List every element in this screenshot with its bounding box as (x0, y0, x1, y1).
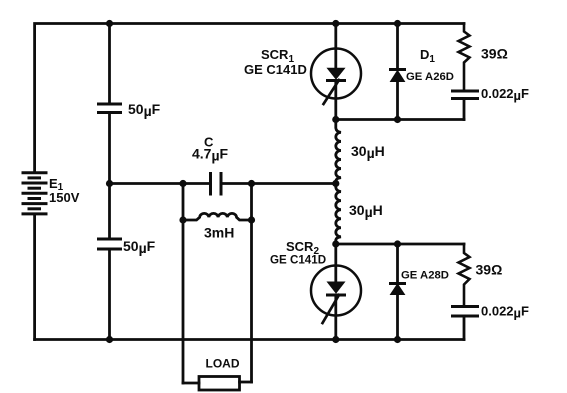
node top D1 (394, 20, 401, 27)
inductor 30uH lower (336, 184, 341, 245)
battery E1 (23, 173, 46, 214)
SCR2 circle (311, 266, 361, 316)
node top filter (106, 20, 113, 27)
node 3mH left (179, 216, 186, 223)
SCR1 circle (311, 49, 361, 99)
svg-text:3mH: 3mH (204, 225, 234, 241)
svg-text:50µF: 50µF (128, 101, 161, 119)
capacitor C 4.7uF (211, 174, 222, 195)
wire left lower (battery to bottom bus) (33, 214, 36, 340)
wire filter branch upper (108, 24, 111, 105)
SCR1 gate lead (324, 80, 340, 104)
diode D2 branch wire upper (396, 244, 399, 284)
node bottom SCR2 (332, 336, 339, 343)
SCR1 cathode bar (328, 79, 345, 82)
wire mid bus left of C (110, 182, 211, 185)
wire cell1 bottom (336, 118, 464, 121)
wire SCR1 cathode (334, 81, 337, 120)
node bottom filter (106, 336, 113, 343)
diode D1 branch wire lower (396, 82, 399, 120)
node tank left top (179, 180, 186, 187)
wire snubber1 lower (463, 99, 466, 120)
svg-text:GE C141D: GE C141D (270, 254, 326, 267)
node cell1 D1 (394, 116, 401, 123)
svg-text:39Ω: 39Ω (476, 262, 503, 278)
node tank right top (248, 180, 255, 187)
node cell2 D2 (394, 240, 401, 247)
svg-text:0.022µF: 0.022µF (481, 304, 529, 321)
diode D2 triangle (391, 284, 405, 295)
diode D1 branch wire upper (396, 24, 399, 70)
wire tank right vertical (250, 184, 253, 383)
svg-text:50µF: 50µF (123, 238, 156, 256)
wire snubber2 lower (463, 316, 466, 340)
wire filter branch lower (108, 249, 111, 340)
resistor R2 39ohm (459, 244, 470, 307)
svg-text:0.022µF: 0.022µF (481, 86, 529, 103)
wire load right lead (240, 381, 252, 384)
diode D2 cathode bar (391, 282, 405, 285)
diode D1 cathode bar (391, 68, 405, 71)
svg-text:30µH: 30µH (349, 202, 383, 220)
wire SCR1 anode (334, 24, 337, 70)
wire filter branch middle (108, 113, 111, 240)
svg-text:GE A26D: GE A26D (406, 71, 454, 83)
wire tank left vertical (182, 184, 185, 384)
capacitor 0.022uF top (453, 91, 478, 99)
wire cell2 top (336, 243, 464, 246)
wire SCR2 anode (334, 244, 337, 283)
diode D1 triangle (391, 71, 405, 82)
wire mid bus right of C (221, 182, 336, 185)
svg-text:GE C141D: GE C141D (244, 62, 307, 77)
wire top bus (35, 24, 464, 173)
SCR2 gate lead (323, 295, 340, 323)
node cell1 SCR (332, 116, 339, 123)
node 3mH right (248, 216, 255, 223)
svg-text:GE A28D: GE A28D (401, 270, 449, 282)
capacitor 50uF top (99, 104, 121, 113)
wire load left lead (183, 382, 199, 385)
inductor 30uH upper (336, 120, 341, 184)
svg-text:30µH: 30µH (351, 143, 385, 161)
svg-text:4.7µF: 4.7µF (192, 146, 229, 164)
SCR2 cathode bar (328, 294, 345, 297)
node cell2 SCR (332, 240, 339, 247)
resistor R1 39ohm (459, 24, 470, 92)
node top SCR1 (332, 20, 339, 27)
wire bottom bus (35, 338, 464, 341)
SCR2 thyristor triangle (328, 282, 345, 293)
diode D2 branch wire lower (396, 295, 399, 340)
node coil junction (332, 180, 339, 187)
node mid filter (106, 180, 113, 187)
capacitor 0.022uF bottom (453, 307, 478, 317)
node bottom D2 (394, 336, 401, 343)
inductor 3mH (183, 213, 252, 220)
svg-text:39Ω: 39Ω (481, 46, 508, 62)
svg-text:150V: 150V (49, 190, 80, 205)
wire SCR2 cathode (334, 295, 337, 340)
node dots (106, 20, 401, 343)
load box (199, 377, 240, 391)
SCR1 thyristor triangle (328, 68, 345, 79)
capacitor 50uF bottom (99, 239, 121, 249)
svg-text:LOAD: LOAD (206, 357, 240, 371)
